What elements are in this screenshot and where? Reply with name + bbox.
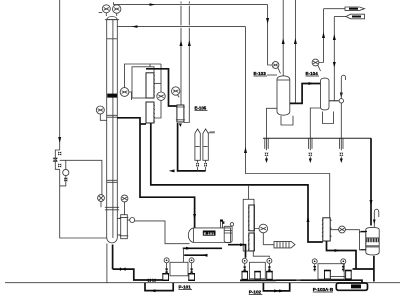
stack exchanger outer xyxy=(243,199,254,251)
heavy wire R1 top loop xyxy=(146,69,177,106)
pump P-102 B bubble xyxy=(267,258,272,263)
wire exchanger bottom xyxy=(327,241,357,269)
valve on bypass xyxy=(53,158,58,162)
wire to column gauge xyxy=(60,160,102,194)
wire IC2 stem vertical xyxy=(154,64,161,118)
gooseneck vent on trap line xyxy=(341,75,345,81)
column name plate xyxy=(107,94,117,98)
steam trap leg 3 xyxy=(340,103,343,150)
condensate header xyxy=(263,137,371,139)
heavy stub R2 left xyxy=(140,123,146,125)
heavy wire R2 bottom down xyxy=(151,123,323,242)
steam trap leg 2 xyxy=(309,108,321,150)
wire reflux vertical x245.5 xyxy=(246,27,330,218)
valve below R4 xyxy=(179,124,182,128)
tick near top instrument xyxy=(99,12,103,14)
vapor offpage wire x295 xyxy=(294,0,296,103)
arrow down into valve xyxy=(340,93,343,99)
instrument circle bottom right of column xyxy=(121,195,128,202)
instrument circle top right xyxy=(113,5,121,13)
pump box P-102 xyxy=(250,262,266,279)
underground loop P-102 xyxy=(263,283,289,291)
instrument circle mid right xyxy=(120,88,129,97)
wire flag1 to E-104 xyxy=(323,9,325,63)
instrument circle stack xyxy=(259,224,268,233)
steam trap leg 1 xyxy=(265,108,277,150)
pump box P-101 xyxy=(170,262,188,276)
heavy wire E-103 to E-104 xyxy=(290,84,321,104)
instrument circle top left xyxy=(102,5,110,13)
separator gooseneck xyxy=(374,209,379,227)
reboiler E-102 xyxy=(121,215,128,239)
svg-text:P-101: P-101 xyxy=(179,285,192,290)
boot below E-104 xyxy=(323,112,334,124)
pump P-103 B bubble xyxy=(341,259,346,264)
underground tank P-103 xyxy=(336,283,367,290)
separator vessel xyxy=(366,227,379,255)
tag leader bullet2 xyxy=(208,132,214,134)
heavy wire column draw to drum H1 xyxy=(117,118,194,228)
wire overhead to E-103 xyxy=(268,5,273,65)
boot below E-103 xyxy=(281,116,293,125)
drum nozzle xyxy=(221,222,223,228)
svg-text:E-104: E-104 xyxy=(306,71,319,76)
valve marks suction xyxy=(148,278,151,282)
ground line xyxy=(5,282,400,284)
wire vessel2 outlet to control valve xyxy=(329,100,339,102)
flag 1 off page xyxy=(345,7,365,10)
wire top instrument header xyxy=(125,64,162,88)
exchanger cluster outer box xyxy=(132,67,154,98)
nozzle line R1 to IC2 stem xyxy=(154,82,161,84)
drum label xyxy=(203,231,216,236)
pump P-102 bodies xyxy=(242,272,248,280)
instrument circle reboiler xyxy=(130,218,135,223)
instrument circle IC3 xyxy=(172,87,180,95)
instrument circle bottom left of column xyxy=(98,195,105,202)
arrow up on x308 xyxy=(307,216,310,222)
arrow left end xyxy=(169,169,175,172)
column top dome xyxy=(107,17,118,20)
stack inner 1 xyxy=(249,205,255,231)
right exchanger xyxy=(323,218,330,241)
exchanger R1 xyxy=(146,73,154,98)
heavy wire header to separator xyxy=(370,138,372,225)
underground loop P-101 xyxy=(145,283,173,291)
valve marks below PI xyxy=(64,178,67,182)
P-103 cluster heavy piping xyxy=(353,268,374,270)
pump P-101 A body xyxy=(163,274,169,281)
wire column top to right xyxy=(114,2,268,4)
arrow down into drum xyxy=(193,214,196,220)
condenser R4 xyxy=(177,105,184,122)
heavy wire P-102 discharge to right xyxy=(276,280,362,283)
exchanger R2 xyxy=(146,102,154,123)
heavy wire column bottoms to pump xyxy=(113,245,163,281)
valve marks on feed line xyxy=(58,152,61,156)
wire feed main vertical xyxy=(60,0,107,238)
arrow right on transfer xyxy=(309,82,315,85)
pump P-103 bodies xyxy=(325,271,331,280)
svg-text:E-101: E-101 xyxy=(204,231,215,236)
pump P-102 A bubble xyxy=(242,258,247,263)
sparger xyxy=(274,241,295,248)
vapor wire x189 xyxy=(184,2,189,123)
instrument circle E-104 top xyxy=(312,59,319,66)
filter bullet 1 xyxy=(195,129,200,160)
arrow down x267.6 xyxy=(266,18,269,24)
column T-101 shell xyxy=(107,20,118,239)
wire reboiler instrument to drum xyxy=(135,221,190,244)
valve on bottoms xyxy=(120,267,126,271)
svg-text:E-103: E-103 xyxy=(254,71,267,76)
instrument circle separator xyxy=(339,226,346,233)
heavy wire stack to P-102 xyxy=(228,245,246,258)
pump P-101 B body xyxy=(189,274,195,281)
control valve globe xyxy=(339,99,343,103)
column tray joint 1 xyxy=(107,115,118,117)
drum E-101 xyxy=(188,228,230,243)
pump box P-103 xyxy=(318,264,344,280)
flag 2 off page xyxy=(346,14,365,19)
stems of top instruments xyxy=(106,13,116,16)
instrument circle mid left xyxy=(96,106,104,114)
arrow reflux left xyxy=(132,25,138,28)
column bottom head xyxy=(107,238,118,243)
pump P-103 A bubble xyxy=(312,259,317,264)
drip pot xyxy=(224,226,232,242)
vapor offpage wire x283 xyxy=(282,0,284,76)
valve bypass bracket xyxy=(55,150,59,169)
instrument circle IC2 xyxy=(157,92,165,100)
wire stack top xyxy=(248,185,250,199)
pump P-101 B stem and bubble xyxy=(191,263,193,274)
filter bullet 2 xyxy=(203,129,208,160)
bullet outlet valves xyxy=(196,163,199,167)
separator side jacket xyxy=(360,232,366,250)
svg-text:P-103A·B: P-103A·B xyxy=(313,287,334,292)
svg-text:P-102: P-102 xyxy=(249,290,262,295)
wire reflux line y26.6 xyxy=(117,26,245,28)
wire column skirt to ground xyxy=(106,244,108,283)
svg-text:E-105: E-105 xyxy=(195,105,207,110)
pump P-101 A stem and bubble xyxy=(166,263,168,274)
heavy wire R4 bottom to flare line xyxy=(178,123,206,171)
stack inner 2 xyxy=(249,233,255,251)
instrument circle E-103 top xyxy=(272,62,279,69)
arrow up x245.5 xyxy=(244,147,247,153)
instrument PI circle left xyxy=(63,169,69,175)
heavy discharge wires above pumps xyxy=(183,247,222,249)
arrow on overhead line xyxy=(150,3,156,6)
wire exchanger to separator instrument xyxy=(330,230,359,233)
column flange joint 3 xyxy=(105,207,119,210)
heavy discharge P-102 xyxy=(240,279,276,281)
column tray joint 2 xyxy=(107,180,118,182)
column nozzle tick top xyxy=(107,38,118,40)
vessel E-103 xyxy=(277,76,290,115)
wire flag2 down to vessel2 outlet xyxy=(333,17,335,101)
arrow feed down xyxy=(58,137,61,143)
arrows up vapor xyxy=(180,40,183,46)
vapor wire x181 xyxy=(180,2,182,106)
vessel E-104 xyxy=(321,78,330,110)
